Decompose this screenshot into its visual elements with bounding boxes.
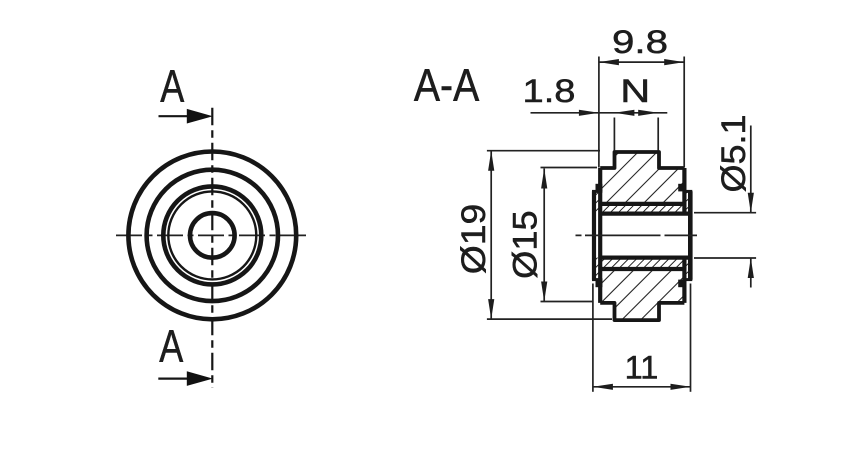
dimension 9.8 [599, 24, 684, 168]
roller lip top-left [596, 184, 603, 192]
roller right face line upper [682, 168, 686, 214]
outer circle (roller OD, Ø19) [128, 152, 296, 320]
svg-text:9.8: 9.8 [612, 24, 668, 60]
roller lip bottom-right [678, 280, 685, 288]
bushing sleeve OD line top [600, 202, 684, 206]
bushing flange hatch left top [594, 191, 600, 213]
svg-text:A: A [159, 320, 183, 371]
svg-text:Ø19: Ø19 [455, 204, 493, 275]
circle counterbore edge (thick) [163, 186, 261, 284]
dimension 1.8 [523, 73, 668, 116]
roller hatching bottom half (sparse) [600, 269, 684, 320]
circle flange OD (thin) [168, 191, 256, 279]
flange top edge right [683, 190, 693, 193]
bushing flange hatch left bottom [594, 258, 600, 280]
roller right face line lower [682, 258, 686, 303]
dimension N [614, 73, 658, 151]
bore circle Ø5.1 [190, 213, 235, 258]
dimension Ø15 [507, 168, 598, 302]
bushing sleeve hatch top [600, 204, 684, 214]
flange top edge left [592, 190, 602, 193]
svg-text:N: N [620, 73, 650, 109]
bushing sleeve hatch bottom [600, 258, 684, 269]
cutting plane line A-A (vertical dashed centerline) [211, 108, 213, 388]
svg-text:A-A: A-A [414, 60, 479, 111]
circle Ø15 (roller step) [147, 170, 278, 301]
roller lip bottom-left [596, 280, 603, 288]
bore line bottom [600, 256, 690, 260]
bushing flange hatch right bottom [684, 258, 690, 280]
svg-text:Ø5.1: Ø5.1 [715, 115, 753, 193]
section axis centerline [576, 234, 698, 236]
roller hatching top half (sparse) [600, 152, 684, 204]
section arrow top [159, 109, 213, 124]
label A bottom [159, 320, 183, 371]
roller lip top-right [678, 184, 685, 192]
svg-text:A: A [160, 60, 184, 111]
bore line top [600, 212, 690, 216]
dimension Ø5.1 [694, 115, 756, 288]
dimension 11 [593, 284, 691, 392]
flange bottom edge right [683, 278, 693, 281]
svg-text:11: 11 [625, 350, 659, 386]
horizontal centerline of front view [116, 234, 309, 236]
label A top [160, 60, 184, 111]
label A-A [414, 60, 479, 111]
section arrow bottom [158, 371, 213, 386]
right flange face line [688, 191, 693, 279]
svg-text:Ø15: Ø15 [507, 210, 545, 279]
roller outline top [600, 152, 684, 168]
roller left face line [598, 168, 602, 303]
svg-text:1.8: 1.8 [523, 73, 576, 109]
roller outline bottom [600, 303, 684, 320]
bushing sleeve OD line bottom [600, 267, 684, 271]
bushing flange hatch right top [684, 191, 690, 213]
flange bottom edge left [592, 278, 602, 281]
dimension Ø19 [455, 151, 612, 319]
left flange face line [592, 191, 596, 279]
